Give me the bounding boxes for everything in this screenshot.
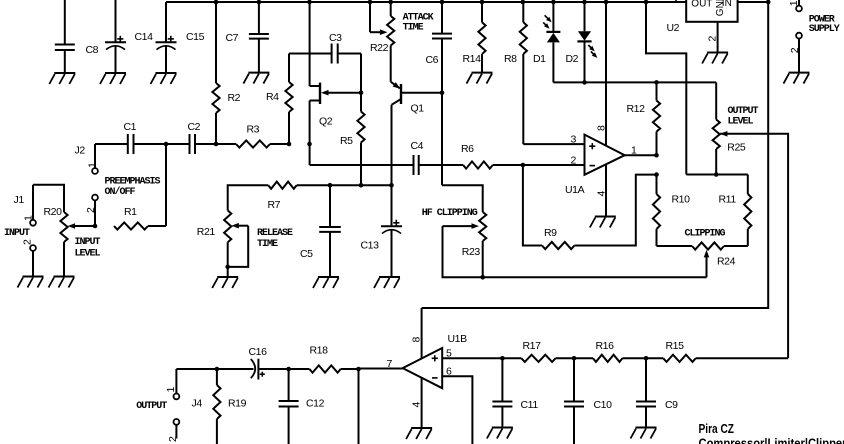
capacitor C9 [645, 358, 647, 401]
svg-text:C14: C14 [135, 31, 154, 43]
svg-text:U2: U2 [667, 22, 680, 34]
ground [789, 72, 810, 74]
svg-text:1: 1 [23, 215, 35, 221]
wire +9V top rail [166, 1, 686, 3]
pin 4 wire [421, 378, 423, 428]
svg-text:U1A: U1A [565, 184, 585, 196]
resistor R14 [481, 2, 483, 22]
arrows into D1 [545, 15, 551, 21]
capacitor C11 [501, 358, 503, 401]
wire J4 output line [176, 368, 253, 370]
svg-text:C9: C9 [665, 399, 678, 411]
wire C1 to C2 [134, 143, 190, 145]
svg-text:OUT: OUT [691, 0, 712, 10]
svg-text:8: 8 [411, 337, 423, 343]
svg-text:TIME: TIME [403, 23, 424, 34]
wire Q2 source to C4 line [310, 164, 414, 166]
svg-text:4: 4 [411, 402, 423, 408]
resistor R8 [522, 2, 524, 22]
ground [492, 427, 513, 429]
svg-text:C5: C5 [300, 248, 313, 260]
svg-text:R4: R4 [266, 91, 279, 103]
connector POWER SUPPLY pin 2 [796, 33, 802, 39]
svg-text:R5: R5 [340, 135, 353, 147]
svg-text:OUTPUT: OUTPUT [136, 401, 167, 412]
svg-text:R21: R21 [197, 226, 216, 238]
transistor Q1 [400, 84, 402, 104]
capacitor C14 [115, 0, 117, 42]
svg-text:D2: D2 [566, 53, 579, 65]
wire U1B pin5 line / filter chain [442, 357, 521, 359]
resistor R9 [523, 165, 542, 246]
resistor R1 [114, 222, 148, 229]
resistor R19 [216, 369, 218, 385]
connector POWER SUPPLY pin 1 [798, 0, 800, 6]
ground [54, 72, 75, 74]
capacitor C10 [573, 358, 575, 401]
capacitor C3 [289, 53, 332, 55]
ground [379, 276, 400, 278]
node Q1 base / C6 [440, 90, 445, 95]
svg-text:RELEASE: RELEASE [257, 228, 293, 239]
wire rail right end down to U1B pin8 line [422, 2, 769, 308]
pin 4 wire to ground [605, 165, 607, 217]
wire R22 wiper to rail [369, 2, 371, 32]
svg-text:INPUT: INPUT [75, 237, 101, 248]
svg-text:OUTPUT: OUTPUT [728, 106, 759, 117]
ground [595, 216, 616, 218]
pin 1 [30, 220, 36, 226]
svg-text:Compressor|Limiter|Clipper: Compressor|Limiter|Clipper [699, 437, 844, 444]
resistor R5 [360, 93, 362, 112]
resistor R15 [663, 355, 695, 362]
resistor R2 [215, 2, 217, 83]
svg-text:R14: R14 [463, 53, 482, 65]
svg-text:J1: J1 [14, 194, 25, 206]
resistor R12 [656, 82, 658, 100]
pin 8 wire [421, 308, 423, 358]
ground [105, 72, 126, 74]
resistor R3 [216, 143, 236, 145]
svg-text:R18: R18 [310, 345, 329, 357]
capacitor C2 [189, 134, 191, 154]
node Q2 gate / C3 / R5 [359, 90, 364, 95]
svg-text:D1: D1 [533, 53, 546, 65]
pin 8 supply wire [605, 2, 607, 146]
capacitor C6 [441, 2, 443, 34]
ground [54, 276, 75, 278]
ground [636, 427, 657, 429]
svg-text:R2: R2 [228, 92, 241, 104]
ground [23, 276, 44, 278]
ground [156, 72, 177, 74]
svg-text:J4: J4 [192, 398, 203, 410]
wire R11 top / R25 bottom [686, 174, 748, 176]
resistor R18 [289, 368, 310, 370]
node C11 top [500, 356, 505, 361]
svg-text:R16: R16 [596, 340, 615, 352]
pin 1 [92, 168, 98, 174]
node line to lower section [356, 367, 361, 372]
node C1/C2 junction [164, 142, 169, 147]
svg-text:J2: J2 [75, 145, 86, 157]
svg-text:Pira CZ: Pira CZ [699, 422, 735, 436]
svg-text:5: 5 [446, 348, 452, 360]
svg-text:IN: IN [722, 0, 732, 9]
node R19 top [215, 367, 220, 372]
resistor R17 [521, 355, 555, 362]
op-amp U1B [403, 348, 443, 388]
svg-text:2: 2 [167, 436, 179, 442]
pin 2 [174, 419, 180, 425]
svg-text:ON/OFF: ON/OFF [105, 186, 136, 198]
svg-text:1: 1 [788, 0, 800, 6]
transistor Q2 (JFET) [319, 83, 321, 104]
node Q2 source [307, 142, 312, 147]
svg-text:LEVEL: LEVEL [728, 117, 754, 128]
svg-text:R9: R9 [544, 227, 557, 239]
svg-text:2: 2 [85, 207, 97, 213]
capacitor C1 [127, 134, 129, 154]
svg-text:R25: R25 [727, 142, 746, 154]
capacitor C12 [288, 369, 290, 401]
potentiometer R24 CLIPPING [657, 245, 693, 247]
svg-text:C2: C2 [188, 121, 201, 133]
potentiometer R20 INPUT LEVEL [33, 185, 64, 212]
node C12 top [286, 367, 291, 372]
svg-text:1: 1 [165, 387, 177, 393]
svg-text:7: 7 [387, 358, 393, 370]
pin 1 tick [675, 0, 677, 2]
svg-text:SUPPLY: SUPPLY [809, 24, 840, 35]
node R20 wiper / J2 / R1 [93, 224, 98, 229]
svg-text:R22: R22 [370, 42, 389, 54]
svg-text:C3: C3 [329, 32, 342, 44]
svg-text:R19: R19 [228, 398, 247, 410]
capacitor C13 [391, 185, 393, 226]
pin 7 output wire [359, 368, 403, 370]
svg-text:HF CLIPPING: HF CLIPPING [422, 208, 478, 219]
svg-text:C1: C1 [124, 121, 137, 133]
arrows out of D2 [588, 45, 593, 50]
ground [217, 276, 238, 278]
svg-text:C13: C13 [361, 240, 380, 252]
svg-text:R17: R17 [523, 340, 542, 352]
svg-text:R24: R24 [717, 256, 736, 268]
svg-text:Q2: Q2 [319, 116, 333, 128]
regulator U2 box [686, 0, 737, 22]
potentiometer R21 RELEASE TIME [224, 210, 231, 242]
svg-text:R1: R1 [124, 206, 137, 218]
pin 1 [175, 369, 177, 393]
wire D1-D2-R12-R25 top line [553, 81, 716, 83]
svg-text:3: 3 [571, 134, 577, 146]
diode D1 (photo) [552, 2, 554, 32]
svg-text:2: 2 [707, 36, 719, 42]
svg-text:1: 1 [86, 162, 98, 168]
capacitor C15 [165, 2, 167, 42]
svg-text:R23: R23 [462, 246, 481, 258]
svg-text:C12: C12 [306, 398, 325, 410]
svg-text:R8: R8 [504, 53, 517, 65]
resistor R4 [288, 54, 290, 83]
svg-text:C15: C15 [186, 31, 205, 43]
ground [707, 52, 728, 54]
svg-text:1: 1 [631, 145, 637, 157]
potentiometer R22 ATTACK TIME [390, 2, 392, 16]
resistor R7 [228, 185, 269, 210]
svg-text:C4: C4 [411, 140, 424, 152]
capacitor C5 [329, 185, 331, 227]
node inverting input [521, 163, 526, 168]
node R9/R10/R12 [654, 172, 659, 177]
svg-text:6: 6 [446, 366, 452, 378]
wire U2 GND pin to ground [717, 22, 719, 53]
resistor R16 [593, 355, 622, 362]
resistor R11 [747, 175, 749, 195]
wire C2 to R3 line [195, 143, 216, 145]
wire clipping bottom line [443, 226, 707, 277]
svg-text:R12: R12 [627, 103, 646, 115]
capacitor C8 [64, 0, 66, 45]
svg-text:C8: C8 [86, 44, 99, 56]
svg-text:TIME: TIME [257, 239, 278, 250]
svg-text:INPUT: INPUT [4, 228, 30, 239]
svg-text:R11: R11 [719, 194, 737, 206]
svg-text:2: 2 [571, 155, 577, 167]
potentiometer R25 OUTPUT LEVEL [715, 82, 717, 119]
node C10 top [572, 356, 577, 361]
svg-text:Q1: Q1 [411, 103, 425, 115]
pin 2 [30, 245, 36, 251]
ground [472, 72, 493, 74]
pin 1 output wire [625, 154, 657, 156]
svg-text:LEVEL: LEVEL [75, 249, 101, 260]
capacitor C4 [413, 155, 415, 175]
svg-text:R20: R20 [44, 206, 63, 218]
svg-text:R15: R15 [666, 340, 685, 352]
wire R1 feedback to C1/C2 node [165, 144, 167, 226]
svg-text:C11: C11 [521, 399, 539, 411]
svg-text:C6: C6 [426, 54, 439, 66]
svg-text:R6: R6 [461, 143, 474, 155]
diode D2 (LED) [584, 2, 586, 31]
svg-text:R3: R3 [247, 124, 260, 136]
wire C6 node down to R23 [441, 93, 443, 186]
svg-text:2: 2 [789, 47, 801, 53]
wire U2 left branch from rail [646, 2, 686, 175]
ground [248, 72, 269, 74]
ground [318, 276, 339, 278]
svg-text:U1B: U1B [448, 333, 468, 345]
svg-text:4: 4 [596, 191, 608, 197]
svg-text:8: 8 [596, 125, 608, 131]
op-amp U1A [585, 135, 625, 175]
node R4 bottom [287, 142, 292, 147]
wire R25 wiper to R15 feedback line [720, 134, 788, 358]
svg-text:CLIPPING: CLIPPING [685, 229, 726, 240]
resistor R6 [419, 164, 463, 166]
node rail junctions [214, 0, 219, 4]
svg-text:2: 2 [22, 239, 34, 245]
node C13 / Q1 collector [389, 183, 394, 188]
svg-text:C10: C10 [594, 399, 613, 411]
svg-text:C16: C16 [249, 346, 268, 358]
svg-text:R7: R7 [268, 199, 281, 211]
svg-text:R10: R10 [672, 194, 691, 206]
capacitor C16 [251, 359, 255, 378]
node C9 top [644, 356, 649, 361]
node R5 bottom [359, 183, 364, 188]
pin 2 [92, 195, 98, 201]
ground [411, 427, 432, 429]
capacitor C7 [258, 2, 260, 34]
resistor R10 [653, 194, 660, 229]
svg-text:PREEMPHASIS: PREEMPHASIS [105, 177, 161, 188]
svg-text:C7: C7 [226, 32, 239, 44]
potentiometer R23 HF CLIPPING [442, 185, 483, 212]
pin 6 wire [442, 376, 472, 444]
node C5 top [328, 183, 333, 188]
pin 3 wire [523, 143, 584, 145]
pin 2 wire [523, 164, 585, 166]
